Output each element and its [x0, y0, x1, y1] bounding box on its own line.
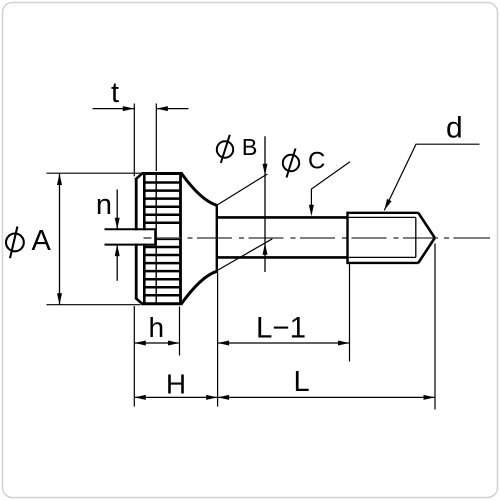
head to neck transition curve bottom — [181, 271, 216, 304]
svg-text:H: H — [166, 368, 186, 399]
dimension phiB oblique extension top — [217, 174, 267, 205]
knurl hatch lines — [144, 183, 181, 296]
dimension phiC label — [283, 149, 299, 178]
thread point chamfer top — [418, 213, 435, 238]
svg-text:L: L — [294, 366, 310, 398]
head to neck transition curve top — [181, 173, 216, 205]
dimension t extension right — [155, 104, 157, 172]
shank top edge — [217, 216, 348, 219]
dimension phiB label — [217, 135, 233, 163]
knurl left boundary — [143, 174, 146, 304]
head knurl band — [135, 173, 182, 305]
dimension phiA extension top — [47, 172, 141, 174]
dimension h line — [134, 342, 179, 344]
head top edge — [142, 172, 183, 175]
dimension L-1 extension right — [349, 264, 351, 362]
chamfer top-left — [135, 173, 143, 180]
dimension n line lower — [116, 245, 118, 281]
svg-text:d: d — [446, 112, 463, 145]
dimension phiB oblique extension bottom — [217, 239, 273, 271]
thread major top — [348, 212, 419, 214]
thread root top thin — [349, 216, 416, 218]
slot bottom edge — [105, 244, 156, 246]
dimension t extension left — [133, 104, 135, 177]
thread start edge — [346, 212, 348, 265]
knurl right boundary — [179, 174, 182, 304]
svg-text:n: n — [96, 189, 112, 221]
slot projection thin line — [155, 174, 157, 304]
thread point chamfer bottom — [418, 238, 435, 263]
dimension L-1 line — [218, 342, 350, 344]
dimension n line upper — [116, 190, 118, 230]
dimension phiB line — [264, 136, 266, 272]
dimension d leader — [384, 144, 479, 210]
extension line left of head (t,h,H share) — [133, 306, 135, 407]
chamfer bottom-left — [135, 298, 143, 305]
dimension phiC leader — [311, 162, 350, 212]
svg-text:L−1: L−1 — [256, 312, 306, 345]
svg-text:t: t — [111, 77, 119, 109]
dimension h extension right — [179, 307, 181, 356]
slot top edge — [105, 228, 156, 230]
thread major bottom — [348, 262, 419, 264]
head bottom edge — [142, 302, 183, 305]
slot white cutout — [103, 230, 155, 243]
label phiA — [6, 227, 24, 259]
centerline (axis) — [144, 237, 491, 239]
dimension L line — [218, 396, 435, 398]
shank bottom edge — [217, 256, 348, 259]
extension line neck (H,L,L-1 share) — [217, 271, 219, 406]
thread root right thin — [415, 217, 417, 257]
svg-text:B: B — [242, 134, 258, 160]
thread root bottom thin — [349, 256, 416, 258]
svg-text:C: C — [308, 148, 325, 175]
dimension phiA extension bottom — [47, 304, 141, 306]
dimension t line left — [93, 108, 135, 110]
dimension phiA line — [59, 174, 61, 305]
svg-text:h: h — [149, 312, 165, 343]
dimension H line — [134, 396, 217, 398]
dimension L extension right — [434, 244, 436, 410]
head left face — [135, 179, 138, 299]
dimension t line right — [156, 108, 188, 110]
svg-text:A: A — [32, 225, 52, 257]
neck face — [216, 204, 218, 273]
slot bottom (right) edge — [154, 228, 156, 245]
